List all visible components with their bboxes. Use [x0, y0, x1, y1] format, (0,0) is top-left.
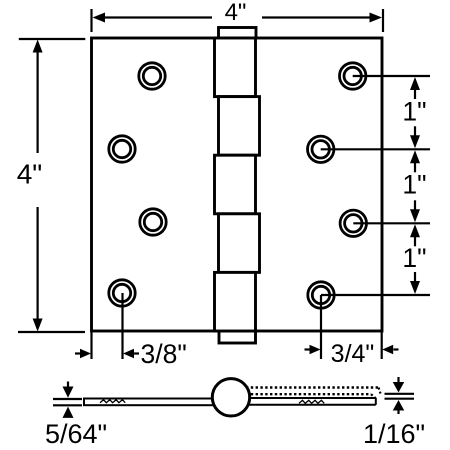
- svg-text:1": 1": [402, 243, 426, 273]
- svg-text:4": 4": [225, 0, 247, 26]
- svg-text:4": 4": [17, 159, 43, 190]
- svg-text:5/64": 5/64": [45, 419, 107, 449]
- svg-text:1": 1": [402, 97, 426, 127]
- svg-text:1/16": 1/16": [363, 419, 425, 449]
- svg-text:3/4": 3/4": [331, 340, 375, 368]
- svg-text:3/8": 3/8": [141, 339, 187, 369]
- svg-text:1": 1": [402, 170, 426, 200]
